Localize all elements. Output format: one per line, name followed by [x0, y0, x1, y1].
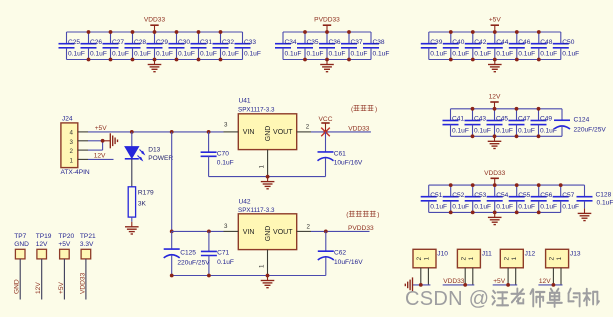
svg-text:C40: C40: [452, 39, 464, 46]
connector J24 ATX-4PIN: [61, 116, 90, 176]
svg-text:2: 2: [549, 256, 556, 260]
svg-text:C124: C124: [574, 117, 590, 124]
wire pin3 to ground junction: [88, 140, 103, 142]
junction at C31 top: [197, 30, 201, 34]
junction at C44 bottom: [493, 58, 497, 62]
wire top rail extension to C124: [539, 108, 563, 110]
capacitor C57: [553, 185, 579, 212]
jumper J13: [546, 249, 581, 267]
svg-text:C49: C49: [540, 116, 552, 123]
capacitor C52: [443, 185, 469, 212]
svg-text:C31: C31: [200, 39, 212, 46]
jumper J12: [500, 249, 535, 267]
svg-text:SPX1117-3.3: SPX1117-3.3: [238, 106, 275, 113]
power port VDD33: [144, 17, 166, 32]
svg-text:+5V: +5V: [489, 17, 502, 24]
pin 3 of U42: [224, 230, 239, 232]
junction at C52 bottom: [449, 211, 453, 215]
junction at C40 top: [449, 30, 453, 34]
svg-text:C28: C28: [134, 39, 146, 46]
junction at C48 bottom: [537, 58, 541, 62]
note (supplies mainboard): [351, 105, 377, 113]
svg-text:C62: C62: [334, 249, 346, 256]
wire U41 output: [311, 131, 371, 133]
junction at C40 bottom: [449, 58, 453, 62]
capacitor C26: [81, 32, 107, 60]
svg-text:C70: C70: [217, 150, 229, 157]
junction at C55 bottom: [515, 211, 519, 215]
svg-text:PVDD33: PVDD33: [314, 17, 340, 24]
svg-text:10uF/16V: 10uF/16V: [334, 160, 363, 167]
svg-text:POWER: POWER: [148, 155, 173, 162]
junction at C29 bottom: [153, 58, 157, 62]
power port PVDD33: [314, 17, 340, 32]
svg-text:C57: C57: [562, 192, 574, 199]
wire top rail extension to C128: [561, 184, 585, 186]
junction J10: [419, 283, 423, 287]
svg-text:C125: C125: [180, 250, 196, 257]
capacitor C48: [531, 32, 557, 60]
wire bottom rail: [283, 59, 371, 61]
svg-text:0.1uF: 0.1uF: [373, 50, 390, 57]
svg-text:0.1uF: 0.1uF: [112, 50, 129, 57]
ground: [488, 212, 502, 224]
capacitor C29: [147, 32, 173, 60]
svg-text:C47: C47: [518, 116, 530, 123]
junction at C49 bottom: [537, 134, 541, 138]
wire below TP21: [85, 259, 87, 300]
junction C125/VIN U42: [170, 230, 174, 234]
junction at C55 top: [515, 183, 519, 187]
jumper J10: [413, 249, 448, 267]
svg-text:0.1uF: 0.1uF: [496, 127, 513, 134]
svg-text:TP19: TP19: [36, 233, 52, 240]
svg-text:GND: GND: [265, 226, 272, 242]
svg-text:R179: R179: [138, 189, 154, 196]
svg-text:12V: 12V: [35, 282, 42, 294]
svg-text:C56: C56: [540, 192, 552, 199]
capacitor C70: [201, 132, 234, 177]
junction C61: [324, 130, 328, 134]
svg-text:0.1uF: 0.1uF: [217, 160, 234, 167]
svg-text:C38: C38: [373, 39, 385, 46]
capacitor C33: [235, 32, 261, 60]
wire J13 net: [538, 284, 562, 286]
svg-text:0.1uF: 0.1uF: [518, 203, 535, 210]
svg-text:C41: C41: [452, 116, 464, 123]
svg-text:C45: C45: [496, 116, 508, 123]
junction J12: [506, 283, 510, 287]
junction at C46 bottom: [515, 58, 519, 62]
junction at C32 bottom: [219, 58, 223, 62]
svg-text:0.1uF: 0.1uF: [597, 200, 613, 207]
wire top rail: [451, 108, 539, 110]
capacitor C35: [297, 32, 323, 60]
svg-text:0.1uF: 0.1uF: [329, 50, 346, 57]
pin 3 stub: [78, 140, 88, 142]
pin 1 GND stub of U42: [267, 250, 269, 276]
svg-text:C51: C51: [430, 192, 442, 199]
pin 1 stub: [78, 158, 88, 160]
junction at C54 top: [493, 183, 497, 187]
svg-text:C128: C128: [596, 192, 612, 199]
test point TP21: [80, 233, 96, 259]
svg-text:2: 2: [70, 148, 74, 155]
ground: [320, 60, 334, 72]
svg-text:C52: C52: [452, 192, 464, 199]
wire U42 output: [311, 230, 370, 232]
junction at C43 bottom: [471, 134, 475, 138]
power port VCC: [319, 116, 333, 132]
svg-text:10uF/16V: 10uF/16V: [334, 259, 363, 266]
svg-text:3K: 3K: [138, 201, 147, 208]
wire U41 ground rail: [209, 176, 326, 178]
svg-text:3: 3: [70, 139, 74, 146]
ground below U41: [261, 177, 275, 189]
capacitor C51: [421, 185, 447, 212]
wire pin2 vertical to junction: [88, 149, 103, 151]
svg-text:1: 1: [259, 165, 266, 169]
svg-text:+5V: +5V: [95, 125, 108, 132]
junction at C42 bottom: [471, 58, 475, 62]
wire top rail: [283, 31, 371, 33]
svg-text:+5V: +5V: [58, 241, 71, 248]
svg-text:0.1uF: 0.1uF: [496, 203, 513, 210]
svg-text:0.1uF: 0.1uF: [562, 203, 579, 210]
junction at C28 top: [131, 30, 135, 34]
svg-text:VDD33: VDD33: [144, 17, 166, 24]
svg-text:+5V: +5V: [493, 278, 506, 285]
capacitor C36: [319, 32, 345, 60]
capacitor C128: [577, 185, 613, 208]
wire U42 VIN: [172, 230, 224, 232]
svg-text:C29: C29: [156, 39, 168, 46]
wire below TP20: [63, 259, 65, 300]
svg-text:1: 1: [259, 264, 266, 268]
wire below TP19: [41, 259, 43, 300]
junction J11: [463, 283, 467, 287]
junction at C30 bottom: [175, 58, 179, 62]
capacitor C38: [363, 32, 389, 60]
svg-text:1: 1: [468, 256, 475, 260]
svg-text:0.1uF: 0.1uF: [200, 50, 217, 57]
junction at C35 bottom: [303, 58, 307, 62]
svg-text:C42: C42: [474, 39, 486, 46]
junction at C35 top: [303, 30, 307, 34]
wire J12 net: [493, 284, 518, 286]
svg-text:3.3V: 3.3V: [80, 241, 94, 248]
junction J13: [552, 283, 556, 287]
capacitor C39: [421, 32, 447, 60]
svg-text:2: 2: [306, 123, 310, 130]
svg-text:J11: J11: [482, 251, 492, 258]
jumper J11: [457, 249, 492, 267]
junction at C32 top: [219, 30, 223, 34]
capacitor C44: [487, 32, 513, 60]
resistor R179: [128, 187, 154, 217]
ground: [148, 60, 162, 72]
junction LED branch: [130, 130, 134, 134]
svg-text:0.1uF: 0.1uF: [307, 50, 324, 57]
capacitor C34: [275, 32, 301, 60]
svg-text:0.1uF: 0.1uF: [452, 203, 469, 210]
wire junction to ground symbol: [103, 140, 111, 142]
svg-text:2: 2: [416, 256, 423, 260]
svg-text:VDD33: VDD33: [79, 272, 86, 294]
junction at C48 top: [537, 30, 541, 34]
J10 pin stubs: [420, 268, 422, 285]
svg-text:0.1uF: 0.1uF: [496, 50, 513, 57]
capacitor C50: [553, 32, 579, 60]
svg-text:+5V: +5V: [58, 281, 65, 294]
junction pin3 ground: [101, 139, 105, 143]
test point TP20: [58, 233, 74, 259]
pin 2 of U41: [297, 131, 311, 133]
svg-text:C33: C33: [244, 39, 256, 46]
test point TP7: [14, 233, 29, 259]
LED D13: [125, 146, 174, 162]
op-amp U42 SPX1117-3.3 regulator: [238, 199, 297, 250]
svg-text:0.1uF: 0.1uF: [222, 50, 239, 57]
junction at C27 top: [109, 30, 113, 34]
junction at C45 top: [493, 107, 497, 111]
junction at C26 top: [87, 30, 91, 34]
no-ERC cross at VCC node: [321, 128, 330, 137]
svg-text:1: 1: [556, 256, 563, 260]
svg-text:0.1uF: 0.1uF: [244, 50, 261, 57]
svg-text:J10: J10: [437, 251, 448, 258]
svg-text:1: 1: [511, 256, 518, 260]
junction at C29 top: [153, 30, 157, 34]
junction at C49 top: [537, 107, 541, 111]
capacitor C125: [164, 231, 211, 275]
capacitor C41: [443, 109, 469, 137]
junction at C47 bottom: [515, 134, 519, 138]
capacitor C40: [443, 32, 469, 60]
svg-text:D13: D13: [148, 146, 160, 153]
junction C62: [324, 230, 328, 234]
capacitor C31: [191, 32, 217, 60]
svg-text:0.1uF: 0.1uF: [430, 203, 447, 210]
capacitor C42: [465, 32, 491, 60]
note (supplies core board): [346, 211, 379, 219]
svg-text:2: 2: [307, 223, 311, 230]
svg-text:0.1uF: 0.1uF: [351, 50, 368, 57]
test point TP19: [36, 233, 52, 259]
J11 pin stubs: [464, 268, 466, 285]
wire J11 net: [443, 284, 475, 286]
wire U42 ground rail: [172, 275, 326, 277]
junction at C46 top: [515, 30, 519, 34]
svg-text:C71: C71: [217, 249, 229, 256]
watermark CSDN: [405, 288, 599, 310]
svg-text:C44: C44: [496, 39, 508, 46]
svg-text:0.1uF: 0.1uF: [474, 127, 491, 134]
junction at C45 bottom: [493, 134, 497, 138]
capacitor C43: [465, 109, 491, 137]
ground sideways at connector: [110, 133, 117, 148]
junction at C31 bottom: [197, 58, 201, 62]
wire top rail: [429, 184, 561, 186]
capacitor C49: [531, 109, 557, 137]
capacitor C27: [103, 32, 129, 60]
capacitor C32: [213, 32, 239, 60]
svg-text:C37: C37: [351, 39, 363, 46]
junction at C47 top: [515, 107, 519, 111]
junction at C56 top: [537, 183, 541, 187]
capacitor C54: [487, 185, 513, 212]
svg-text:GND: GND: [14, 241, 29, 248]
svg-text:C26: C26: [90, 39, 102, 46]
wire LED to resistor: [131, 159, 133, 187]
svg-text:C46: C46: [518, 39, 530, 46]
junction at C36 top: [325, 30, 329, 34]
pin 3 of U41: [224, 131, 239, 133]
junction at C37 top: [347, 30, 351, 34]
wire resistor to ground: [131, 217, 133, 222]
svg-text:TP7: TP7: [14, 233, 26, 240]
wire pin1 12V: [88, 158, 114, 160]
svg-text:12V: 12V: [36, 241, 48, 248]
junction C125 bottom: [170, 274, 174, 278]
svg-text:): ): [377, 212, 379, 219]
svg-text:2: 2: [460, 256, 467, 260]
svg-text:C35: C35: [307, 39, 319, 46]
svg-text:220uF/25V: 220uF/25V: [574, 127, 607, 134]
svg-text:C55: C55: [518, 192, 530, 199]
svg-text:2: 2: [503, 256, 510, 260]
ground: [488, 136, 502, 148]
svg-text:GND: GND: [265, 126, 272, 142]
svg-text:1: 1: [424, 256, 431, 260]
svg-text:C30: C30: [178, 39, 190, 46]
junction at C53 bottom: [471, 211, 475, 215]
svg-text:U42: U42: [239, 199, 251, 206]
svg-text:J24: J24: [62, 116, 73, 123]
pin 2 of U42: [297, 230, 311, 232]
wire top rail: [429, 31, 561, 33]
svg-text:0.1uF: 0.1uF: [285, 50, 302, 57]
svg-text:3: 3: [224, 223, 228, 230]
capacitor C62: [318, 231, 363, 275]
svg-text:VCC: VCC: [319, 116, 333, 123]
svg-text:VOUT: VOUT: [273, 129, 293, 136]
wire bottom rail extension to C124: [539, 135, 563, 137]
capacitor C45: [487, 109, 513, 137]
junction at C37 bottom: [347, 58, 351, 62]
svg-text:3: 3: [224, 122, 228, 129]
svg-text:12V: 12V: [489, 94, 501, 101]
junction U42 gnd: [266, 274, 270, 278]
wire bottom rail: [451, 135, 539, 137]
capacitor C55: [509, 185, 535, 212]
svg-text:12V: 12V: [94, 153, 106, 160]
capacitor C47: [509, 109, 535, 137]
svg-text:0.1uF: 0.1uF: [68, 50, 85, 57]
junction at C30 top: [175, 30, 179, 34]
capacitor C28: [125, 32, 151, 60]
ground below U42: [261, 276, 275, 288]
junction C71: [207, 230, 211, 234]
svg-text:C61: C61: [334, 150, 346, 157]
capacitor C61: [318, 132, 363, 177]
svg-text:CSDN @: CSDN @: [405, 288, 489, 310]
svg-text:0.1uF: 0.1uF: [134, 50, 151, 57]
wire bottom rail: [429, 211, 561, 213]
junction at C56 bottom: [537, 211, 541, 215]
svg-text:C32: C32: [222, 39, 234, 46]
pin 1 GND stub of U41: [267, 150, 269, 177]
svg-text:TP20: TP20: [58, 233, 74, 240]
svg-text:0.1uF: 0.1uF: [540, 203, 557, 210]
svg-text:C50: C50: [562, 39, 574, 46]
svg-text:220uF/25V: 220uF/25V: [177, 260, 210, 267]
svg-text:): ): [375, 106, 377, 113]
svg-text:VOUT: VOUT: [273, 229, 293, 236]
svg-text:0.1uF: 0.1uF: [540, 50, 557, 57]
ground below R179: [125, 222, 139, 234]
svg-text:VDD33: VDD33: [484, 170, 506, 177]
svg-text:ATX-4PIN: ATX-4PIN: [61, 169, 90, 176]
svg-text:VDD33: VDD33: [443, 278, 465, 285]
ground: [488, 60, 502, 72]
junction at C27 bottom: [109, 58, 113, 62]
svg-text:12V: 12V: [539, 278, 551, 285]
svg-text:C54: C54: [496, 192, 508, 199]
svg-text:C39: C39: [430, 39, 442, 46]
svg-text:PVDD33: PVDD33: [348, 225, 374, 232]
svg-text:C53: C53: [474, 192, 486, 199]
svg-text:J12: J12: [525, 251, 536, 258]
capacitor C124: [554, 109, 606, 137]
wire +5V rail: [88, 131, 224, 133]
svg-text:C43: C43: [474, 116, 486, 123]
svg-text:C34: C34: [285, 39, 297, 46]
wire below TP7: [19, 259, 21, 300]
svg-text:J13: J13: [570, 251, 581, 258]
svg-text:0.1uF: 0.1uF: [452, 50, 469, 57]
svg-text:4: 4: [70, 129, 74, 136]
svg-text:0.1uF: 0.1uF: [518, 50, 535, 57]
wire J10 to ground: [413, 284, 430, 286]
J12 pin stubs: [507, 268, 509, 285]
svg-text:0.1uF: 0.1uF: [156, 50, 173, 57]
ground below C128: [578, 208, 592, 220]
junction +5V feed to U42: [170, 130, 174, 134]
wire top rail: [67, 31, 243, 33]
wire +5V vertical feed: [171, 132, 173, 232]
junction at C54 bottom: [493, 211, 497, 215]
svg-text:0.1uF: 0.1uF: [474, 50, 491, 57]
junction at C53 top: [471, 183, 475, 187]
junction at C43 top: [471, 107, 475, 111]
pin 2 stub: [78, 149, 88, 151]
junction at C52 top: [449, 183, 453, 187]
junction at C42 top: [471, 30, 475, 34]
junction at C26 bottom: [87, 58, 91, 62]
svg-text:U41: U41: [239, 98, 251, 105]
wire bottom rail: [67, 59, 243, 61]
junction at C57 top: [559, 183, 563, 187]
ground sideways at J10: [405, 277, 412, 292]
capacitor C56: [531, 185, 557, 212]
svg-text:0.1uF: 0.1uF: [178, 50, 195, 57]
svg-text:1: 1: [70, 158, 74, 165]
svg-text:0.1uF: 0.1uF: [430, 50, 447, 57]
capacitor C46: [509, 32, 535, 60]
svg-text:C48: C48: [540, 39, 552, 46]
svg-text:TP21: TP21: [80, 233, 96, 240]
